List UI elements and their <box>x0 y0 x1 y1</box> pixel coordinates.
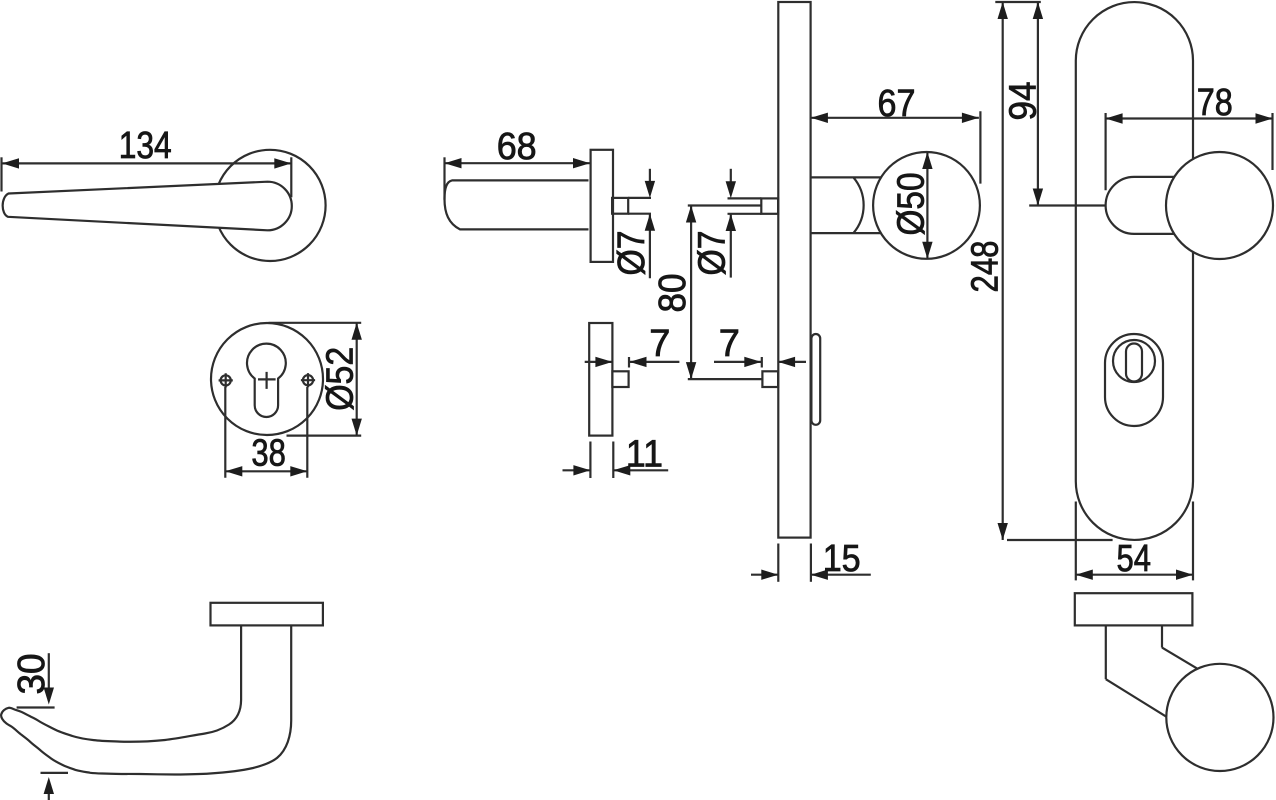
pin Ø7 bottom extension <box>728 213 762 215</box>
dim 68 line <box>445 162 591 164</box>
dim 248 bottom extension <box>1007 539 1113 541</box>
svg-text:80: 80 <box>652 274 694 313</box>
dim 11 extension right <box>612 442 614 479</box>
rose plate top view <box>211 603 323 626</box>
dim 38 line <box>225 470 307 472</box>
dim 78 arrow right <box>1256 113 1273 123</box>
rose side view <box>591 150 613 262</box>
dim 54 extension right <box>1192 502 1194 581</box>
dim 30 bottom tick <box>41 772 69 774</box>
dim 80 arrow bottom <box>686 362 696 379</box>
escutcheon circle <box>211 323 323 435</box>
dim 11 right arrow shaft <box>613 469 668 471</box>
dim 7 left arrow shaft <box>585 361 613 363</box>
neck left line <box>1105 625 1107 679</box>
dim 94 arrow bottom <box>1033 189 1043 206</box>
svg-text:68: 68 <box>497 126 537 168</box>
dim 15 right arrow shaft <box>811 574 871 576</box>
svg-text:134: 134 <box>119 125 172 167</box>
dim 7 extension tick <box>628 357 630 368</box>
knob ball top view <box>1166 664 1273 771</box>
dim 67 arrow left <box>811 113 828 123</box>
dim 38 arrow left <box>225 466 242 476</box>
dim 7 right arrow shaft <box>630 361 680 363</box>
dim 80 line <box>690 206 692 380</box>
dim 94 line <box>1037 2 1039 206</box>
plate lower pin <box>762 371 778 387</box>
svg-text:Ø52: Ø52 <box>320 347 362 411</box>
knob neck top line <box>811 176 881 178</box>
dim 248 arrow bottom <box>998 523 1008 540</box>
knob neck intersection arc <box>853 177 863 233</box>
dim 134 extension line left <box>0 157 2 191</box>
knob neck front fill <box>1106 177 1174 234</box>
dim 15 extension left <box>777 544 779 582</box>
svg-text:67: 67 <box>878 83 916 125</box>
center cross mark <box>258 372 276 389</box>
dim 15 left arrow <box>761 570 778 580</box>
dim Ø52 line <box>356 323 358 435</box>
dim 38 extension left <box>224 387 226 478</box>
dim 248 line <box>1002 2 1004 540</box>
dim 54 extension left <box>1075 502 1077 581</box>
lever body (tapered, rounded ends) <box>3 182 292 231</box>
pin Ø7 top extension <box>728 197 762 199</box>
dim Ø7 bottom extension <box>628 213 651 215</box>
svg-text:94: 94 <box>1003 82 1045 121</box>
dim 78 extension right <box>1271 113 1273 170</box>
dim 134 line <box>2 162 291 164</box>
svg-text:54: 54 <box>1117 538 1152 580</box>
dim Ø50 arrow top <box>922 152 932 169</box>
svg-text:11: 11 <box>626 434 663 476</box>
dim 7b right arrow shaft <box>778 361 806 363</box>
dim Ø52 top extension <box>269 322 362 324</box>
dim 30 top tick <box>17 706 55 708</box>
svg-text:7: 7 <box>649 323 670 365</box>
dim 38 arrow right <box>290 466 307 476</box>
svg-text:15: 15 <box>823 538 861 580</box>
dim Ø50 arrow bottom <box>922 242 932 259</box>
dim 11 left arrow shaft <box>563 469 591 471</box>
svg-text:Ø7: Ø7 <box>611 231 653 276</box>
plate front outline <box>1076 2 1193 540</box>
dim 11 right arrow <box>613 465 630 475</box>
dim 67 line <box>811 117 979 119</box>
dim 94 extension <box>1029 204 1105 206</box>
dim Ø52 bottom extension <box>287 435 362 437</box>
dim 68 arrow left <box>445 158 462 168</box>
escutcheon pin <box>612 371 628 387</box>
dim 80 arrow top <box>686 206 696 223</box>
handle grip side view <box>445 180 589 229</box>
dim 30 top arrow shaft <box>48 653 50 688</box>
dim 54 arrow right <box>1176 570 1193 580</box>
lever grip curved outline <box>1 625 291 774</box>
dim 134 arrow left <box>2 158 19 168</box>
dim 15 left arrow shaft <box>751 574 778 576</box>
top extension line <box>995 1 1041 3</box>
dim 78 extension left <box>1104 113 1106 190</box>
keyway slot <box>1126 344 1142 382</box>
knob neck bottom line <box>811 232 881 234</box>
cylinder circle <box>1113 340 1155 382</box>
plate upper spindle pin <box>761 198 778 213</box>
dim 38 extension right <box>306 387 308 478</box>
dim 67 arrow right <box>962 113 979 123</box>
dim 30 top arrow <box>44 688 54 705</box>
dim 11 extension left <box>589 442 591 479</box>
svg-text:78: 78 <box>1197 82 1233 124</box>
plate top view <box>1075 593 1193 625</box>
dim Ø50 line <box>926 152 928 259</box>
dim 68 arrow right <box>573 158 590 168</box>
dim 7b extension tick <box>761 357 763 368</box>
knob ball side view <box>873 152 980 259</box>
svg-text:30: 30 <box>11 654 53 695</box>
dim Ø52 arrow bottom <box>352 419 362 436</box>
svg-text:7: 7 <box>719 323 740 365</box>
dim 30 bottom arrow shaft <box>48 789 50 800</box>
dim 30 bottom arrow <box>44 777 54 794</box>
svg-text:Ø7: Ø7 <box>692 231 734 276</box>
screw hole right <box>303 375 313 385</box>
dim 248 arrow top <box>998 2 1008 19</box>
dim 78 arrow left <box>1106 113 1123 123</box>
svg-text:38: 38 <box>251 432 286 474</box>
dim Ø7b down arrow shaft <box>730 169 732 182</box>
dim Ø52 arrow top <box>352 323 362 340</box>
neck right line <box>1161 625 1163 647</box>
dim 68 extension left <box>443 157 445 200</box>
dim Ø7 down arrow <box>645 181 655 198</box>
dim 134 arrow right <box>274 158 291 168</box>
euro profile keyhole <box>247 344 286 417</box>
cylinder cover bar <box>811 334 820 425</box>
dim 134 extension line right <box>290 157 292 197</box>
dim 78 line <box>1106 117 1273 119</box>
dim 80 bottom extension <box>688 378 763 380</box>
spindle pin <box>612 198 628 214</box>
dim Ø7 top extension <box>628 197 651 199</box>
dim 54 arrow left <box>1076 570 1093 580</box>
dim Ø7 down arrow shaft <box>649 169 651 182</box>
dim Ø7b up arrow shaft <box>730 214 732 278</box>
dim Ø7 up arrow shaft <box>649 214 651 279</box>
svg-text:248: 248 <box>965 241 1007 293</box>
cylinder guard oval <box>1105 334 1163 426</box>
dim Ø7b down arrow <box>726 181 736 198</box>
dim 54 line <box>1076 574 1193 576</box>
dim Ø7 up arrow <box>645 214 655 231</box>
dim 15 right arrow <box>811 570 828 580</box>
rose circle behind lever <box>214 150 325 261</box>
dim 94 arrow top <box>1033 2 1043 19</box>
dim 7 left arrow <box>595 357 612 367</box>
dim 7b left arrow shaft <box>714 361 761 363</box>
escutcheon side body <box>589 323 612 436</box>
dim 7b left arrow <box>744 357 761 367</box>
dim 15 extension right <box>810 544 812 582</box>
dim 67 extension right <box>979 111 981 183</box>
dim Ø7b up arrow <box>726 214 736 231</box>
plate side body <box>778 2 810 538</box>
svg-text:Ø50: Ø50 <box>891 173 933 236</box>
dim 7 right arrow <box>630 357 647 367</box>
knob neck front outline <box>1106 177 1178 234</box>
dim 11 left arrow <box>573 465 590 475</box>
neck left diagonal <box>1106 679 1167 717</box>
dim 80 top extension <box>688 204 762 206</box>
dim 7b right arrow <box>778 357 795 367</box>
screw hole left <box>221 375 231 385</box>
neck right diagonal <box>1162 648 1197 669</box>
knob ball front view <box>1166 152 1273 259</box>
